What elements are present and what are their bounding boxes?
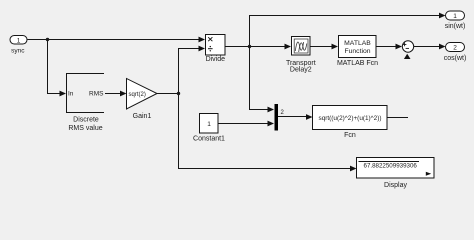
svg-text:2: 2 [453,45,457,52]
arrowhead into Gain1 [120,91,127,97]
wire Fcn output stub [387,117,408,119]
wire junction down and right to Display [179,94,351,169]
arrowhead into Fcn [306,114,313,120]
svg-text:1: 1 [207,121,211,128]
svg-text:sqrt(2): sqrt(2) [129,92,146,98]
arrowhead into Mux input 1 [268,107,275,113]
svg-text:Gain1: Gain1 [133,113,152,120]
svg-text:cos(wt): cos(wt) [444,55,467,62]
wire Constant1 to Mux input 2 [218,123,268,125]
block Discrete RMS value (subsystem, right edge faded) [67,74,105,132]
wire Gain1 output to junction [157,93,179,95]
block Outport1 [445,11,466,30]
wire Divide output to Transport Delay2 [225,46,285,48]
svg-text:1: 1 [17,37,21,44]
arrowhead into Transport Delay2 [285,44,292,50]
arrowhead into MATLAB Fcn [332,44,339,50]
arrowhead into Divide X input [199,37,206,43]
wire main from Inport1 to Divide X input [28,39,200,41]
svg-text:1: 1 [453,13,457,20]
block Display [357,158,435,189]
svg-text:RMS: RMS [89,91,104,98]
junction dot at divide output [248,45,251,48]
arrowhead into Mux input 2 [268,121,275,127]
svg-text:Function: Function [344,48,370,55]
wire Transport Delay2 to MATLAB Fcn [310,46,332,48]
wire Mux output to Fcn [278,116,306,118]
wire Sum output to Outport2 cos(wt) [414,46,439,48]
svg-text:MATLAB: MATLAB [344,40,371,47]
arrowhead into Divide divide input [199,46,206,52]
wire RMS to Gain1 [105,93,120,95]
block Constant1 [193,114,225,143]
svg-text:Delay2: Delay2 [290,67,312,74]
svg-text:sin(wt): sin(wt) [445,23,466,30]
wire junction down to Mux input 1 [250,47,269,110]
block MATLAB Fcn [337,36,378,68]
block Sum [402,41,413,52]
block Fcn [313,106,388,140]
svg-text:Discrete: Discrete [73,117,99,124]
wire junction up to Outport1 sin(wt) [250,16,440,47]
svg-text:Display: Display [384,182,407,189]
arrowhead up into Sum bottom input [404,54,411,59]
svg-text:sqrt((u(2)^2)+(u(1)^2)): sqrt((u(2)^2)+(u(1)^2)) [319,115,382,122]
svg-text:Fcn: Fcn [344,132,356,139]
block Outport2 [444,43,467,63]
svg-text:67.8822509939306: 67.8822509939306 [364,163,418,170]
arrowhead into Discrete RMS In [60,91,67,97]
arrowhead into Outport2 [439,44,446,50]
junction dot at gain output [177,92,180,95]
block Inport1 [10,36,27,55]
junction dot at main branch [46,38,49,41]
wire branch down to Discrete RMS In [48,40,61,94]
svg-text:RMS value: RMS value [68,125,102,132]
svg-text:sync: sync [11,48,25,55]
svg-text:MATLAB Fcn: MATLAB Fcn [337,60,378,67]
arrowhead into Sum [396,44,403,50]
block Transport Delay2 [286,37,316,74]
arrowhead into Outport1 [439,13,446,19]
block Divide [206,35,226,63]
svg-text:Constant1: Constant1 [193,136,225,143]
svg-text:In: In [68,91,74,98]
wire junction up to Divide divide-input [179,49,200,94]
block Mux [275,104,285,131]
wire MATLAB Fcn to Sum [376,46,396,48]
block Gain1 [127,79,158,121]
arrowhead into Display [350,166,357,172]
svg-text:Divide: Divide [206,56,226,63]
